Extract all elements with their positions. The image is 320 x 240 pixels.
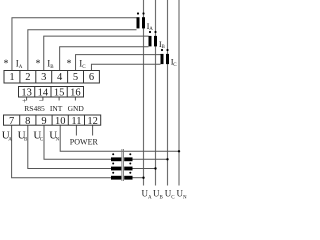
polarity dot CT1 secondary [137,12,139,14]
svg-text:RS485: RS485 [24,104,45,113]
wire terminal1 to CT1 secondary top [12,18,137,71]
junction node A line [142,177,144,179]
wire power supply stub terminal11 [75,125,77,135]
PT2 secondary winding bar [111,167,121,171]
wire terminal7 to PT3 secondary [12,125,111,178]
wire power supply stub terminal12 [92,125,94,135]
svg-text:12: 12 [87,116,98,127]
wire terminal8 to PT2 secondary [28,125,111,168]
wire PT3 primary to phase line A [133,177,144,179]
svg-text:GND: GND [68,104,85,113]
terminal strip 13-16 outline [19,87,84,98]
voltage transformer PT core lines [121,149,123,181]
wire PT2 primary to phase line B [133,168,156,170]
current transformer CT1 (phase A) secondary bar [137,17,140,28]
junction node B line [154,167,156,169]
phase line N [178,0,180,186]
phase line C [167,0,169,186]
wire terminal9 to PT1 secondary [44,125,111,159]
polarity dot CT2 secondary [149,31,151,33]
polarity dot PT1 secondary [112,153,114,155]
phase line B [155,0,157,186]
svg-text:*: * [67,59,72,70]
current transformer CT3 (phase C) secondary bar [161,54,164,64]
terminal strip 1-6 outline [4,71,99,84]
wire stub terminal16 [74,97,76,101]
wire terminal6 to CT3 secondary bottom [91,64,160,70]
svg-text:6: 6 [89,72,94,83]
svg-text:A: A [8,138,12,143]
wire terminal3 to CT2 secondary top [44,36,149,70]
svg-text:10: 10 [55,116,66,127]
polarity dot PT1 primary [129,153,131,155]
polarity dot CT2 primary [154,31,156,33]
PT3 secondary winding bar [111,176,121,180]
wire terminal4 to CT2 secondary bottom [60,47,149,71]
wire PT1 primary to phase line C [133,158,168,160]
terminal numbers 13-16 [21,87,80,98]
junction node N line [178,150,180,152]
svg-text:3: 3 [41,72,46,83]
polarity dot PT2 secondary [112,163,114,165]
svg-text:INT: INT [50,104,63,113]
wire terminal10 to phase line N [60,125,179,151]
polarity dot PT3 secondary [112,172,114,174]
svg-text:A: A [148,196,152,201]
svg-text:11: 11 [71,116,81,127]
polarity dot CT1 primary [142,12,144,14]
wire stub terminal15 [58,97,60,101]
phase line A [143,0,145,186]
polarity dot PT3 primary [129,172,131,174]
polarity dot CT3 primary [166,49,168,51]
svg-text:16: 16 [70,87,81,98]
current transformer CT3 (phase C) primary bar [166,54,169,64]
svg-text:15: 15 [54,87,65,98]
wire RS485 stub terminal13 [26,97,28,101]
terminal numbers 1-6 [9,72,94,83]
svg-text:7: 7 [9,116,14,127]
PT1 primary winding bar [124,157,132,161]
svg-text:1: 1 [9,72,14,83]
wire terminal2 to CT1 secondary bottom [28,30,137,71]
terminal strip 7-12 outline [4,115,101,125]
current transformer CT2 (phase B) secondary bar [149,36,152,47]
junction node C line [166,158,168,160]
PT3 primary winding bar [124,176,132,180]
wire terminal5 to CT3 secondary top [76,55,161,71]
current transformer CT1 (phase A) primary bar [142,17,145,28]
current transformer CT2 (phase B) primary bar [154,36,157,47]
svg-text:POWER: POWER [70,138,99,147]
svg-text:9: 9 [41,116,46,127]
svg-text:8: 8 [25,116,30,127]
svg-text:A: A [19,65,23,70]
svg-text:*: * [4,59,9,70]
svg-text:N: N [183,196,187,201]
wire RS485 stub terminal14 [42,97,44,101]
PT2 primary winding bar [124,167,132,171]
svg-text:5: 5 [73,72,78,83]
polarity dot CT3 secondary [161,49,163,51]
svg-text:*: * [36,59,41,70]
svg-text:4: 4 [57,72,63,83]
svg-text:2: 2 [25,72,30,83]
terminal numbers 7-12 [9,116,98,127]
PT1 secondary winding bar [111,157,121,161]
polarity dot PT2 primary [129,163,131,165]
svg-text:N: N [56,138,60,143]
